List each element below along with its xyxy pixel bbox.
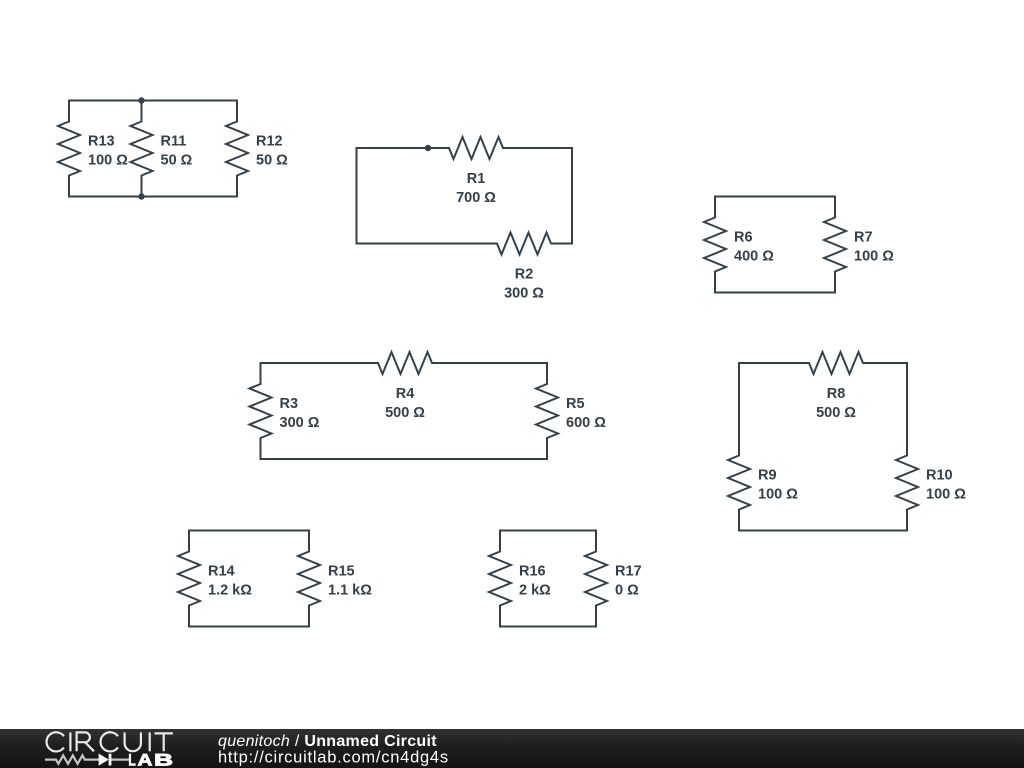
svg-text:quenitoch / Unnamed Circuit: quenitoch / Unnamed Circuit xyxy=(218,733,437,750)
svg-text:300 Ω: 300 Ω xyxy=(504,286,544,302)
svg-text:R17: R17 xyxy=(615,564,642,580)
resistor R15 xyxy=(298,531,320,627)
wire group2 top xyxy=(357,147,429,149)
wire group2 left xyxy=(356,148,358,244)
wire group4 top right xyxy=(453,362,547,364)
svg-text:100 Ω: 100 Ω xyxy=(854,249,894,265)
svg-text:50 Ω: 50 Ω xyxy=(256,153,288,169)
svg-text:R4: R4 xyxy=(396,386,415,402)
wire group4 bottom xyxy=(261,458,548,460)
wire group2 bottom xyxy=(357,243,477,245)
svg-text:R9: R9 xyxy=(758,468,777,484)
node junction dot R1 left xyxy=(425,145,431,151)
wire group7 bottom xyxy=(500,626,596,628)
svg-text:600 Ω: 600 Ω xyxy=(566,415,606,431)
resistor R5 xyxy=(536,363,558,459)
svg-text:R3: R3 xyxy=(280,396,299,412)
node junction dot bottom xyxy=(138,193,144,199)
resistor R10 xyxy=(896,435,918,531)
wire group1 top xyxy=(69,100,237,102)
wire group5 left xyxy=(738,363,740,435)
resistor R7 xyxy=(824,197,846,293)
wire group5 top right xyxy=(884,362,907,364)
resistor R11 xyxy=(131,101,153,197)
logo C1 xyxy=(47,732,64,751)
resistor R12 xyxy=(226,101,248,197)
logo wire + resistor xyxy=(45,755,129,763)
svg-text:50 Ω: 50 Ω xyxy=(161,153,193,169)
resistor R3 xyxy=(250,363,272,459)
wire group1 bottom xyxy=(69,196,237,198)
resistor R14 xyxy=(178,531,200,627)
svg-text:0 Ω: 0 Ω xyxy=(615,583,639,599)
resistor R1 xyxy=(428,137,524,159)
svg-text:R13: R13 xyxy=(88,134,115,150)
resistor R13 xyxy=(58,101,80,197)
svg-text:300 Ω: 300 Ω xyxy=(280,415,320,431)
wire group5 top left xyxy=(739,362,788,364)
resistor R17 xyxy=(585,531,607,627)
wire group7 top xyxy=(500,530,596,532)
svg-text:100 Ω: 100 Ω xyxy=(758,487,798,503)
node junction dot top xyxy=(138,97,144,103)
resistor R6 xyxy=(704,197,726,293)
logo C2 xyxy=(101,732,118,751)
resistor R8 xyxy=(788,352,884,374)
svg-text:L: L xyxy=(128,751,136,768)
resistor R9 xyxy=(728,435,750,531)
svg-text:R6: R6 xyxy=(734,230,753,246)
svg-text:700 Ω: 700 Ω xyxy=(456,190,496,206)
svg-text:100 Ω: 100 Ω xyxy=(88,153,128,169)
svg-text:R12: R12 xyxy=(256,134,283,150)
svg-text:400 Ω: 400 Ω xyxy=(734,249,774,265)
svg-text:R15: R15 xyxy=(328,564,355,580)
resistor R16 xyxy=(489,531,511,627)
footer title xyxy=(218,733,437,750)
logo diode bar xyxy=(109,754,112,766)
svg-text:1.2 kΩ: 1.2 kΩ xyxy=(208,583,252,599)
logo U xyxy=(125,732,141,751)
svg-text:http://circuitlab.com/cn4dg4s: http://circuitlab.com/cn4dg4s xyxy=(218,748,449,766)
footer url xyxy=(218,748,449,766)
svg-text:R2: R2 xyxy=(515,267,534,283)
svg-text:R5: R5 xyxy=(566,396,585,412)
svg-text:R1: R1 xyxy=(467,171,486,187)
logo CIRCUIT text xyxy=(47,732,173,751)
svg-text:100 Ω: 100 Ω xyxy=(926,487,966,503)
svg-text:R10: R10 xyxy=(926,468,953,484)
logo diode xyxy=(99,753,109,765)
wire group2 right xyxy=(571,148,573,244)
svg-text:R11: R11 xyxy=(161,134,187,150)
logo T xyxy=(155,733,173,751)
svg-text:500 Ω: 500 Ω xyxy=(816,405,856,421)
wire group2 top right xyxy=(524,147,572,149)
svg-text:R7: R7 xyxy=(854,230,873,246)
svg-text:R14: R14 xyxy=(208,564,235,580)
wire group5 bottom xyxy=(739,530,907,532)
svg-text:1.1 kΩ: 1.1 kΩ xyxy=(328,583,372,599)
wire group3 bottom xyxy=(715,292,835,294)
svg-text:2 kΩ: 2 kΩ xyxy=(519,583,551,599)
wire group4 top left xyxy=(261,362,358,364)
svg-text:R16: R16 xyxy=(519,564,546,580)
wire group3 top xyxy=(715,196,835,198)
svg-text:B: B xyxy=(154,751,173,768)
svg-text:A: A xyxy=(138,751,153,768)
wire group6 top xyxy=(189,530,309,532)
logo R xyxy=(77,732,94,751)
svg-text:500 Ω: 500 Ω xyxy=(385,405,425,421)
logo LAB xyxy=(128,751,173,768)
resistor R4 xyxy=(357,352,453,374)
logo I1 xyxy=(69,732,71,751)
resistor R2 xyxy=(476,233,572,255)
wire group5 right xyxy=(906,363,908,435)
logo I2 xyxy=(149,732,151,751)
svg-text:R8: R8 xyxy=(827,386,846,402)
wire group6 bottom xyxy=(189,626,309,628)
